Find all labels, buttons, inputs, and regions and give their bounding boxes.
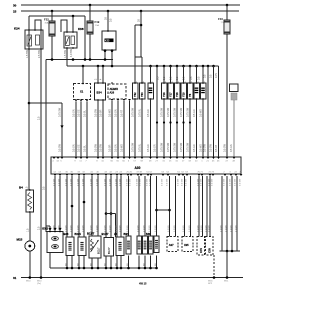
wire stub to busA x92 [91,258,93,268]
wire rail30 to F10 [226,5,228,20]
control unit top pin numbers [52,161,235,163]
component B6/1 box [126,236,131,254]
svg-text:0,5 SW: 0,5 SW [137,178,139,186]
component Y17 pin ticks [170,82,171,83]
jog wire x106 to F box [105,212,108,215]
node jog y210 right [155,209,158,212]
wire labels under control unit [54,178,242,186]
svg-text:0,5 BR: 0,5 BR [116,225,118,232]
node rail15 x141 [140,10,143,13]
wire stub to busA x121 [120,256,122,269]
wire drop x141 from rail15 [140,11,142,57]
wire ground busA [50,267,157,269]
wire stub to busA x106 [105,256,107,269]
svg-text:0,5 BR: 0,5 BR [209,225,211,232]
wire bus2 stub x170.5 [169,65,172,68]
component X7/4 dashed box [197,237,205,256]
wire labels above busA [66,263,158,266]
svg-text:0,5 BR: 0,5 BR [144,225,146,232]
node rail15 at F22 [51,10,54,13]
module K23 box [102,31,116,50]
node rail30 at F19 [89,4,92,7]
wire rail30 to F19 [89,5,91,21]
component Y63 pin ticks [141,82,142,83]
wire bus2 stub x203 [202,65,205,68]
svg-text:0,75 SW: 0,75 SW [161,107,164,117]
svg-text:0,75 SW: 0,75 SW [167,142,170,152]
wire bus2 stub x183.5 [182,65,185,68]
svg-text:Y8: Y8 [188,93,192,97]
svg-text:0,5 GN: 0,5 GN [73,144,76,152]
svg-text:0,5 SW: 0,5 SW [167,178,169,186]
svg-text:Y17: Y17 [169,92,173,97]
component Y62 pin ticks [134,82,135,83]
wire jumper loop K68 [61,20,67,32]
wire bus2 to control unit x213.5 [212,65,215,68]
wires control unit to B17/8 [92,176,98,238]
svg-text:(2x): (2x) [37,283,41,285]
component A97 dashed box [167,237,178,252]
wire cluster to ground bus [226,251,228,278]
component X11 pin marks [82,83,83,84]
wire K24 pin30 down to ground [40,30,42,278]
wire ground bus 31 [21,277,243,279]
svg-text:0,5 GN: 0,5 GN [115,144,118,152]
svg-text:1: 1 [165,81,166,83]
node bus1 x85 [84,58,87,61]
svg-text:1: 1 [185,81,186,83]
svg-text:B40: B40 [146,233,151,236]
wires control unit to B11/4 [79,176,84,238]
node on line16 at K68 feed [72,15,75,18]
wire K68 pin to bus2 left end [66,48,68,66]
wires control unit to B17/9 [144,176,146,238]
node x29 y103 [28,102,31,105]
component A26 pin marks [111,99,114,101]
svg-text:31: 31 [13,276,17,280]
wire jumper loop K24 86-87 [35,20,41,30]
svg-text:Y16: Y16 [162,92,166,97]
svg-text:0,75 SW: 0,75 SW [132,142,135,152]
component B17/8b box [137,236,142,254]
wires X11 to control unit [75,102,77,158]
wire bus2 stub x190 [189,65,192,68]
svg-text:0,5 BR: 0,5 BR [78,225,80,232]
svg-text:X7/4: X7/4 [200,248,203,253]
svg-text:1: 1 [136,81,137,83]
wires control unit to B28 [67,176,72,238]
svg-text:0,5 RT: 0,5 RT [215,144,218,152]
component Y19 pin ticks [183,82,184,83]
fuse F10 [218,17,230,34]
svg-text:1: 1 [152,81,153,83]
svg-text:X95: X95 [184,243,189,247]
node ground x41 [40,276,43,279]
svg-text:A97: A97 [169,243,174,247]
svg-text:0,75 SW: 0,75 SW [187,142,190,152]
wire bus1 y59.5 [46,59,113,61]
relay K68 [64,32,77,48]
wires injector group right to control unit [163,99,165,157]
svg-text:B11/4: B11/4 [75,233,82,236]
wire bus1-drop jog into G3/2 [46,225,50,227]
wire stub to busA x145 [144,256,146,269]
node bus2 K23 pin2 [111,65,114,68]
svg-text:M15: M15 [17,238,23,242]
svg-text:0,5 SW: 0,5 SW [95,108,98,117]
svg-text:0,5 BR: 0,5 BR [189,225,191,232]
svg-text:4,0 SW: 4,0 SW [70,48,73,57]
component Y18 box [174,83,180,99]
svg-text:15: 15 [13,9,17,13]
svg-text:0,5 BR: 0,5 BR [71,225,73,232]
svg-text:0,5 GR: 0,5 GR [147,109,150,117]
relay K24 [25,30,43,49]
wires control unit to G3/2 [54,176,56,228]
wire stub to busA x117 [116,256,118,269]
wire bus2 to control unit x208 [207,65,210,68]
svg-text:B11/7: B11/7 [98,247,101,254]
relay K24 pin ticks [28,29,29,30]
svg-text:0,5 BR: 0,5 BR [174,225,176,232]
wire dashed X7/9 to ground bus [213,255,215,278]
svg-text:1: 1 [178,81,179,83]
svg-text:0,5 BR: 0,5 BR [83,225,85,232]
svg-text:0,5 GN: 0,5 GN [230,144,233,152]
svg-text:0,5 SW: 0,5 SW [235,178,237,186]
svg-text:30A: 30A [45,22,49,25]
component B17/7 box [104,238,114,257]
pin labels above injector boxes [136,81,205,83]
wires injector group left to control unit [134,99,136,157]
pump M3 motor symbol [25,241,35,251]
sensor B4 box [26,190,34,212]
svg-text:B17/7: B17/7 [108,247,111,254]
connector arrows above G3/2 [48,228,51,231]
component R4 pin ticks [150,82,151,83]
svg-text:0,5 BL: 0,5 BL [84,109,87,117]
wires control unit to B17/8b [138,176,140,238]
component X11 box [74,84,91,100]
svg-text:0,75: 0,75 [215,73,218,78]
wire bus2 stub x150.5 [149,65,152,68]
component X3/4 box [154,236,159,253]
svg-text:B11/7: B11/7 [87,232,95,236]
svg-text:0,5 SW: 0,5 SW [140,178,142,186]
relay K68 pin ticks [66,31,67,32]
svg-text:0,5 SW: 0,5 SW [162,178,164,186]
wires control unit to X95 [185,176,191,238]
svg-text:1: 1 [172,81,173,83]
svg-text:0,5 BR: 0,5 BR [206,225,208,232]
wire bus2 stub x177 [176,65,179,68]
component Y18 pin ticks [176,82,177,83]
wire F10 down to control unit pin [226,34,228,157]
wire bus2 stub to B26 pin1 [97,65,100,68]
wire K24 feed from line 16 [28,16,30,30]
wire labels y216-231 [54,225,238,232]
component R3 box [194,83,200,99]
svg-text:Y18: Y18 [175,92,179,97]
wire pass-through x157 bus2 to control unit [156,66,158,157]
svg-text:0,5 SW: 0,5 SW [178,178,180,186]
wire bus2 stub to B26 pin2 [102,65,105,68]
wire drop x85 from line16 to bus1 [84,16,86,60]
wire link y57 [135,56,142,58]
component R3 pin ticks [196,82,197,83]
wire rail15 to K23 [107,11,109,31]
svg-text:0,5 GR: 0,5 GR [193,144,196,152]
wire left branch x62 with connector arrow [61,103,63,157]
svg-text:K24: K24 [14,27,20,31]
svg-text:0,5 BR: 0,5 BR [155,225,157,232]
node ground M3 [29,276,32,279]
svg-text:0,5 SW: 0,5 SW [224,178,226,186]
svg-text:0,5 SW: 0,5 SW [130,178,132,186]
wire stub to busA x84 [83,256,85,269]
wire bus2 stub to X11 [82,65,85,68]
wire K23 pin2 to bus2 [111,53,113,66]
wire rail 15 [21,10,239,12]
component X95 dashed box [182,237,193,252]
svg-text:0,75 SW: 0,75 SW [174,142,177,152]
svg-text:0,75 BL: 0,75 BL [139,143,142,152]
component Y63 box [139,83,145,99]
svg-text:1: 1 [143,81,144,83]
component L5 box [116,237,124,256]
wire bus2 stub x164 [163,65,166,68]
svg-text:0,5 SW: 0,5 SW [59,143,62,152]
svg-text:0,5 BR: 0,5 BR [183,225,185,232]
wire K68 feed from line16 [72,16,74,32]
svg-text:0,5 SW: 0,5 SW [224,143,227,152]
component R4 box [148,83,154,99]
node y206 x72 [71,205,74,208]
svg-text:0,5 SW: 0,5 SW [100,143,103,152]
svg-text:0,5 BR: 0,5 BR [236,225,238,232]
svg-text:B17/7: B17/7 [102,232,109,236]
node bus1 F22 [51,58,54,61]
svg-text:0,5 SW: 0,5 SW [186,178,188,186]
wire stub to box Y2 [141,57,143,83]
svg-text:0,5 GE: 0,5 GE [78,109,81,117]
svg-text:0,75 SW: 0,75 SW [187,107,190,117]
svg-text:0,5 GN: 0,5 GN [115,109,118,117]
svg-text:B34: B34 [97,91,103,95]
component B11/7 sensor box [89,236,101,258]
svg-text:0,5 GN: 0,5 GN [73,109,76,117]
wire F19 to bus1 [89,34,91,60]
wire stub to busA x111 [110,256,112,269]
svg-text:W10: W10 [26,281,31,283]
component R1 box [200,83,206,99]
svg-text:0,5 BR: 0,5 BR [231,225,233,232]
wire stub to busA x128.5 [128,256,130,269]
wire B4 to pump M3 [29,212,31,241]
wire rail 30 [21,4,240,6]
nodes on injector wires y122 [156,121,158,123]
svg-text:0,5 GE: 0,5 GE [78,144,81,152]
svg-text:0,5 BR: 0,5 BR [109,144,112,152]
wires A26 to control unit [111,101,113,157]
wire rail15 to F22 [51,11,53,21]
svg-text:0,5 BR: 0,5 BR [105,225,107,232]
svg-text:0,75 SW: 0,75 SW [180,142,183,152]
wire jog to x135 [135,24,141,26]
svg-text:Y19: Y19 [182,92,186,97]
svg-text:4W 15: 4W 15 [139,281,147,285]
wire bus2 y66 [67,65,219,67]
component Y8 box [187,83,193,99]
component Y16 box [161,83,167,99]
module K23 pin ticks [107,30,108,31]
wire bus2 right corner down to control unit [218,66,220,157]
wire K23 pin1 to bus1 [104,53,106,60]
wire right cluster bar [220,250,241,252]
component Y8 pin ticks [189,82,190,83]
node y202 x84 [83,201,86,204]
svg-text:1: 1 [191,81,192,83]
svg-text:1: 1 [204,81,205,83]
svg-text:Y62: Y62 [133,92,137,97]
wire interconnect line y16 K24 to K68 to right drop [29,15,85,17]
node ground x214 [213,276,216,279]
svg-text:0,5 BR: 0,5 BR [138,225,140,232]
svg-text:0,5 SW: 0,5 SW [212,178,214,186]
connector X64 box [230,84,239,100]
wire bus1 left drop toward G3/2 [45,60,47,233]
svg-text:0,5 BR: 0,5 BR [221,225,223,232]
svg-text:0,75 SW: 0,75 SW [174,107,177,117]
wires control unit to B6/1 [128,176,130,238]
svg-text:0,5 WS: 0,5 WS [109,109,112,117]
svg-text:K23: K23 [105,40,110,43]
svg-text:0,5 BL: 0,5 BL [84,144,87,152]
wires control unit to X3/4 [156,176,158,238]
svg-text:0,5 BR: 0,5 BR [149,225,151,232]
wire bus2 stub x157 [156,65,159,68]
node bus1 F19 [89,58,92,61]
wires control unit to L5 [117,176,121,238]
svg-text:0,5 WS: 0,5 WS [121,144,124,152]
fuse F19 [87,20,100,34]
node rail30 at F10 [226,4,229,7]
wire G3/2 down to busA [49,253,51,269]
component B11/4 box [78,237,86,256]
wires control unit to right cluster [221,176,223,251]
svg-text:0,5 BR: 0,5 BR [127,225,129,232]
node bus1 K68 [72,58,75,61]
node rail15 at K23 [107,10,110,13]
connector arrow K23 pin2 [110,50,113,53]
svg-text:0,5 SW: 0,5 SW [147,178,149,186]
wire stub to busA x67 [66,256,68,269]
svg-text:0,5 BR: 0,5 BR [100,109,103,117]
component B26 box [95,83,106,100]
component Y17 box [168,83,174,99]
svg-text:0,5 SW: 0,5 SW [204,143,207,152]
svg-text:0,5 SW: 0,5 SW [210,143,213,152]
sensor B4 pin ticks [29,189,30,190]
svg-text:0,5 WS: 0,5 WS [200,144,203,152]
svg-text:0,5 BR: 0,5 BR [120,225,122,232]
svg-text:G3/2: G3/2 [42,227,49,231]
node bus1 K23 [104,58,107,61]
svg-text:A26: A26 [110,92,115,95]
connector arrow K23 pin1 [103,50,106,53]
svg-text:0,5 BR: 0,5 BR [97,225,99,232]
component A26 top stub [111,82,113,84]
wire M3 to ground bus [29,251,31,278]
svg-text:K68: K68 [78,27,84,31]
component B17/9 box [143,236,148,254]
svg-text:0,75 SW: 0,75 SW [180,107,183,117]
fuse F22 [44,18,55,37]
svg-text:0,75 SW: 0,75 SW [161,142,164,152]
component AE/MFI A26 box [108,84,126,99]
svg-text:15A: 15A [95,24,99,27]
svg-text:0,75 BL: 0,75 BL [139,108,142,117]
wire stub to busA x79 [78,256,80,269]
wire stub to busA x156.5 [156,256,158,269]
svg-text:B28: B28 [64,232,69,236]
svg-text:F19: F19 [95,20,100,24]
svg-text:A30: A30 [135,166,141,170]
wires control unit to X7/4 [199,176,203,238]
wire stub to box Y1 [134,57,136,83]
wire stub to busA x139 [138,256,140,269]
wire stub to busA x150.5 [150,256,152,269]
component R1 pin ticks [202,82,203,83]
svg-text:0,5 GR: 0,5 GR [154,144,157,152]
svg-text:0,5 BR: 0,5 BR [66,225,68,232]
svg-text:0,5 SW: 0,5 SW [230,178,232,186]
svg-text:0,5 SW: 0,5 SW [240,178,242,186]
control unit bottom pin numbers [53,171,242,173]
svg-text:0,75 SW: 0,75 SW [59,107,62,117]
svg-text:Y63: Y63 [140,92,144,97]
svg-text:0,5 BR: 0,5 BR [168,225,170,232]
svg-text:0,5 RT: 0,5 RT [121,109,124,117]
wires control unit to B17/7 [106,176,111,238]
svg-text:B4: B4 [19,186,23,190]
svg-text:0,5 SW: 0,5 SW [95,143,98,152]
svg-text:0,5 WS: 0,5 WS [200,109,203,117]
wire branch y103 [29,102,62,104]
wires control unit to A97 [170,176,176,238]
svg-text:F10: F10 [218,17,223,21]
svg-text:0,5 BR: 0,5 BR [198,225,200,232]
wire stub to busA x72 [71,256,73,269]
wire F22 to bus1 [51,36,53,60]
control unit bottom pin marks [54,174,243,176]
wire stub to busA x98 [97,258,99,268]
svg-text:0,75 SW: 0,75 SW [132,107,135,117]
svg-text:0,5 GR: 0,5 GR [147,144,150,152]
component B26 pin ticks [97,82,98,83]
component G3/2 box [47,232,63,253]
svg-text:0,5 GR: 0,5 GR [193,109,196,117]
component G3/2 pin ticks [49,231,50,232]
svg-text:B6/1: B6/1 [124,233,130,236]
svg-text:0,5 SW: 0,5 SW [182,178,184,186]
control unit top pin marks [53,157,236,159]
nodes on cluster bar [226,250,229,253]
component B40 box [148,236,153,254]
wires control unit to B40 [150,176,152,238]
wire drop x135 [134,25,136,57]
svg-text:1: 1 [198,81,199,83]
